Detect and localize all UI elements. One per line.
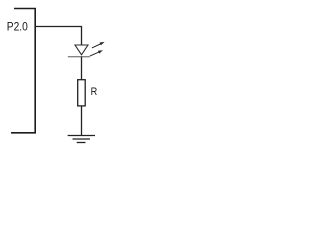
LED D1 triangle (anode) — [75, 45, 88, 55]
resistor R (box) — [78, 80, 86, 106]
ground bar 3 — [77, 142, 86, 144]
wire P2.0 to LED anode — [35, 27, 81, 46]
LED light arrow 1 — [92, 42, 105, 48]
LED cathode bar — [68, 56, 90, 58]
ground bar 2 — [73, 138, 91, 140]
chip boundary (port edge of microcontroller) — [11, 9, 35, 133]
LED light arrow 2 — [90, 50, 103, 56]
wire LED cathode to resistor — [81, 57, 83, 80]
svg-text:R: R — [91, 86, 98, 98]
ground bar 1 — [68, 135, 95, 137]
svg-text:P2.0: P2.0 — [7, 19, 28, 33]
wire resistor to ground — [81, 106, 83, 136]
